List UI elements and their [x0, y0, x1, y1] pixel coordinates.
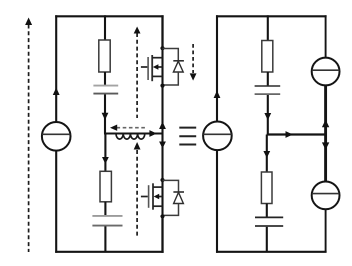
wire: bold segment mid node to I4 with down arrowhead: [322, 135, 329, 183]
capacitor C2: [92, 216, 122, 226]
capacitor C1: [93, 86, 118, 94]
wire: C3 down to mid node with down arrowhead: [264, 95, 271, 135]
diode D2 (body diode of Q2): [163, 180, 185, 215]
inductor L1 (four bumps): [116, 134, 145, 140]
resistor R1: [99, 40, 110, 72]
wire: R1 to C1: [104, 72, 106, 85]
wire: Q1 channel column between dots: [161, 48, 163, 85]
wire: left circuit left rail lower segment: [55, 151, 57, 253]
wire: right circuit left rail upper segment: [216, 15, 218, 121]
node: Q2 drain junction dot: [160, 178, 164, 182]
dashed current-loop arrow (outer left, pointing up): [25, 18, 32, 253]
equivalence symbol: [179, 128, 196, 145]
resistor R2: [100, 171, 111, 202]
resistor R4: [261, 172, 272, 204]
wire: right circuit top rail: [216, 15, 327, 17]
wire: right column bottom segment (I4 to bottom rail): [325, 209, 327, 252]
transistor Q1 (upper MOSFET): [141, 55, 163, 81]
node: Q2 source junction dot: [160, 214, 164, 218]
capacitor C3: [255, 86, 281, 94]
wire: right upper branch stub (top rail to R3): [267, 15, 269, 41]
wire: upper branch stub (top rail to resistor R1): [104, 15, 106, 41]
wire: left circuit top rail: [55, 15, 163, 17]
wire: C1 down to mid node with down arrowhead: [102, 95, 109, 134]
transistor Q2 (lower MOSFET): [141, 183, 163, 209]
wire: left circuit left rail upper segment: [55, 15, 57, 122]
wire: MOSFET column mid segment with up arrowhead: [159, 86, 166, 134]
arrowhead: right on middle link after L1: [149, 130, 156, 137]
wire: R3 to C3: [267, 72, 269, 86]
wire: C2 to bottom rail: [104, 226, 106, 252]
diode D1 (body diode of Q1): [163, 49, 184, 86]
current source I2 (right circuit input): [203, 122, 232, 151]
dashed current-loop arrow (center lower, pointing up): [134, 142, 141, 237]
arrowhead: current direction up on right circuit left rail: [214, 91, 221, 99]
current source I3 (top right): [312, 58, 340, 86]
arrowhead: current direction up on left rail: [53, 88, 60, 96]
wire: right circuit bottom rail: [216, 251, 327, 253]
wire: MOSFET column bottom segment: [161, 216, 163, 253]
wire: R4 to C4: [266, 204, 268, 218]
capacitor C4: [255, 217, 283, 226]
wire: right column top segment (top rail to I3): [325, 15, 327, 58]
wire: MOSFET column mid-lower segment with down arrowhead: [159, 134, 166, 181]
resistor R3: [262, 41, 273, 73]
wire: middle link with inductor L1: [104, 132, 163, 134]
wire: lower branch from mid node with down arrowhead: [102, 134, 109, 173]
current source I4 (bottom right): [312, 182, 340, 210]
current source I1 (left circuit): [42, 122, 71, 151]
wire: Q2 channel column between dots: [161, 180, 163, 217]
wire: left circuit bottom rail: [55, 251, 163, 253]
node: Q1 drain junction dot: [160, 46, 164, 50]
wire: bold segment I3 to mid node with up arrowhead: [322, 85, 329, 134]
wire: C4 to bottom rail: [266, 227, 268, 252]
wire: right circuit middle link with right arrowhead: [267, 131, 326, 138]
dashed arrow above L1 (pointing left): [110, 125, 146, 131]
node: Q1 source junction dot: [160, 84, 164, 88]
wire: right circuit left rail lower segment: [216, 150, 218, 253]
wire: R2 to C2: [104, 202, 106, 216]
dashed arrow right of D1 (pointing down): [190, 44, 197, 81]
wire: right lower branch from mid node with down arrowhead: [263, 135, 270, 173]
dashed current-loop arrow (center upper, pointing up): [134, 27, 141, 119]
wire: MOSFET column top segment (top rail to Q1 drain node): [161, 15, 163, 48]
